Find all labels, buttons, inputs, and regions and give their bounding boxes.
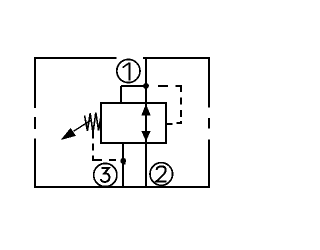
wire: outer boundary top edge left segment [34,57,116,59]
adjustment arrow head [62,128,76,139]
wire: outer boundary right edge middle dash [208,118,210,129]
wire: pilot branch horizontal at y=85.7 [121,85,146,87]
wire: port 3 line from body bottom to boundary (x=122.5) [122,143,124,187]
pilot line (dashed) from dot A to body right side [158,86,181,124]
junction dot A at (145.6,86) [143,83,149,89]
port circle 1 [117,59,140,82]
wire: outer boundary left edge lower solid [34,139,36,188]
flow arrow down (inside body, bottom) [142,131,151,140]
port circle 2 [150,163,173,186]
wire: main flow path port 1 to port 2 (x=145.6) [145,58,147,187]
flow arrow up (inside body, top) [142,105,151,115]
pilot drain line (dashed) from spring to dot B [93,132,116,161]
port circle 3 [94,163,117,186]
wire: outer boundary left edge upper solid [34,57,36,108]
wire: outer boundary bottom edge [34,186,210,188]
wire: pilot branch drop to body top at x=121 [120,86,122,103]
wire: outer boundary right edge upper solid [208,57,210,108]
valve body envelope [101,103,166,143]
junction dot B at (123,160.8) [120,158,126,164]
spring (adjustable) [85,113,101,134]
wire: outer boundary left edge middle dash [34,117,36,129]
wire: outer boundary top edge right segment [143,57,210,59]
adjustment arrow shaft [74,120,93,132]
wire: outer boundary right edge lower solid [208,140,210,189]
port label 1 [123,63,130,81]
port label 2 [156,166,166,181]
port label 3 [101,168,110,182]
